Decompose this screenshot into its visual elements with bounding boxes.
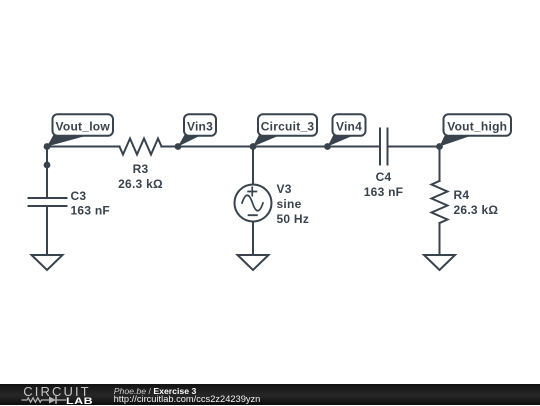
wire: source V3 to middle ground	[252, 222, 254, 256]
voltage source V3 plus sign	[248, 187, 256, 195]
wire: capacitor C4 to node Vout_high	[388, 146, 440, 148]
junction dot on left branch	[44, 162, 51, 169]
resistor R3	[120, 139, 162, 155]
node label flag Vout_high	[440, 114, 512, 146]
node label flag Vin4	[328, 114, 366, 146]
wire: capacitor C3 to left ground	[46, 206, 48, 255]
footer attribution line	[114, 386, 197, 396]
node label flag Vin3	[178, 114, 216, 146]
wire: node Vin3 to node Circuit_3	[178, 146, 253, 148]
svg-text:163 nF: 163 nF	[364, 185, 404, 199]
footer bar	[0, 384, 540, 405]
node Vout_high junction dot	[436, 143, 443, 150]
ground right	[424, 255, 455, 270]
svg-text:Vout_low: Vout_low	[56, 119, 111, 133]
node Vout_low junction dot	[44, 143, 51, 150]
R3 value label	[118, 162, 163, 191]
C4 value label	[364, 170, 404, 199]
svg-text:163 nF: 163 nF	[71, 204, 111, 218]
svg-text:Vin3: Vin3	[187, 119, 213, 133]
resistor R4	[432, 181, 448, 223]
wire: resistor R4 to right ground	[439, 223, 441, 255]
node Circuit_3 junction dot	[250, 143, 257, 150]
svg-text:V3: V3	[277, 182, 292, 196]
wire: node Vout_high down to resistor R4	[439, 147, 441, 182]
footer url line	[114, 394, 261, 404]
V3 value label	[277, 182, 310, 226]
svg-text:C4: C4	[376, 170, 392, 184]
wire: node Vout_low down to capacitor C3	[46, 147, 48, 199]
svg-text:R4: R4	[454, 188, 470, 202]
capacitor C4 plate right	[387, 129, 389, 165]
node label flag Circuit_3	[253, 114, 317, 146]
wire: node Circuit_3 to capacitor C4 (through node Vin4)	[253, 146, 380, 148]
R4 value label	[454, 188, 499, 217]
CircuitLab logo word CIRCUIT	[23, 384, 90, 399]
voltage source V3 circle	[235, 185, 272, 222]
ground left	[32, 255, 63, 270]
svg-text:Circuit_3: Circuit_3	[261, 119, 315, 133]
voltage source V3 minus sign	[249, 214, 257, 216]
svg-text:sine: sine	[277, 197, 302, 211]
svg-text:26.3 kΩ: 26.3 kΩ	[454, 203, 499, 217]
svg-text:50 Hz: 50 Hz	[277, 212, 310, 226]
capacitor C4 plate left	[379, 129, 381, 165]
CircuitLab logo schematic glyph	[20, 394, 70, 406]
capacitor C3 plate top	[29, 197, 67, 199]
voltage source V3 sine	[242, 195, 263, 211]
svg-text:Vin4: Vin4	[336, 119, 362, 133]
svg-text:C3: C3	[71, 189, 87, 203]
node label flag Vout_low	[47, 114, 113, 146]
node Vin4 junction dot	[324, 143, 331, 150]
svg-text:Vout_high: Vout_high	[447, 119, 507, 133]
C3 value label	[71, 189, 111, 218]
CircuitLab logo word LAB	[66, 396, 93, 406]
node Vin3 junction dot	[175, 143, 182, 150]
svg-text:R3: R3	[133, 162, 149, 176]
capacitor C3 plate bottom	[29, 205, 67, 207]
svg-text:26.3 kΩ: 26.3 kΩ	[118, 177, 163, 191]
wire: resistor R3 to node Vin3	[162, 146, 179, 148]
ground middle	[238, 255, 269, 270]
wire: node Vout_low to resistor R3	[47, 146, 120, 148]
wire: node Circuit_3 down to source V3	[252, 147, 254, 185]
